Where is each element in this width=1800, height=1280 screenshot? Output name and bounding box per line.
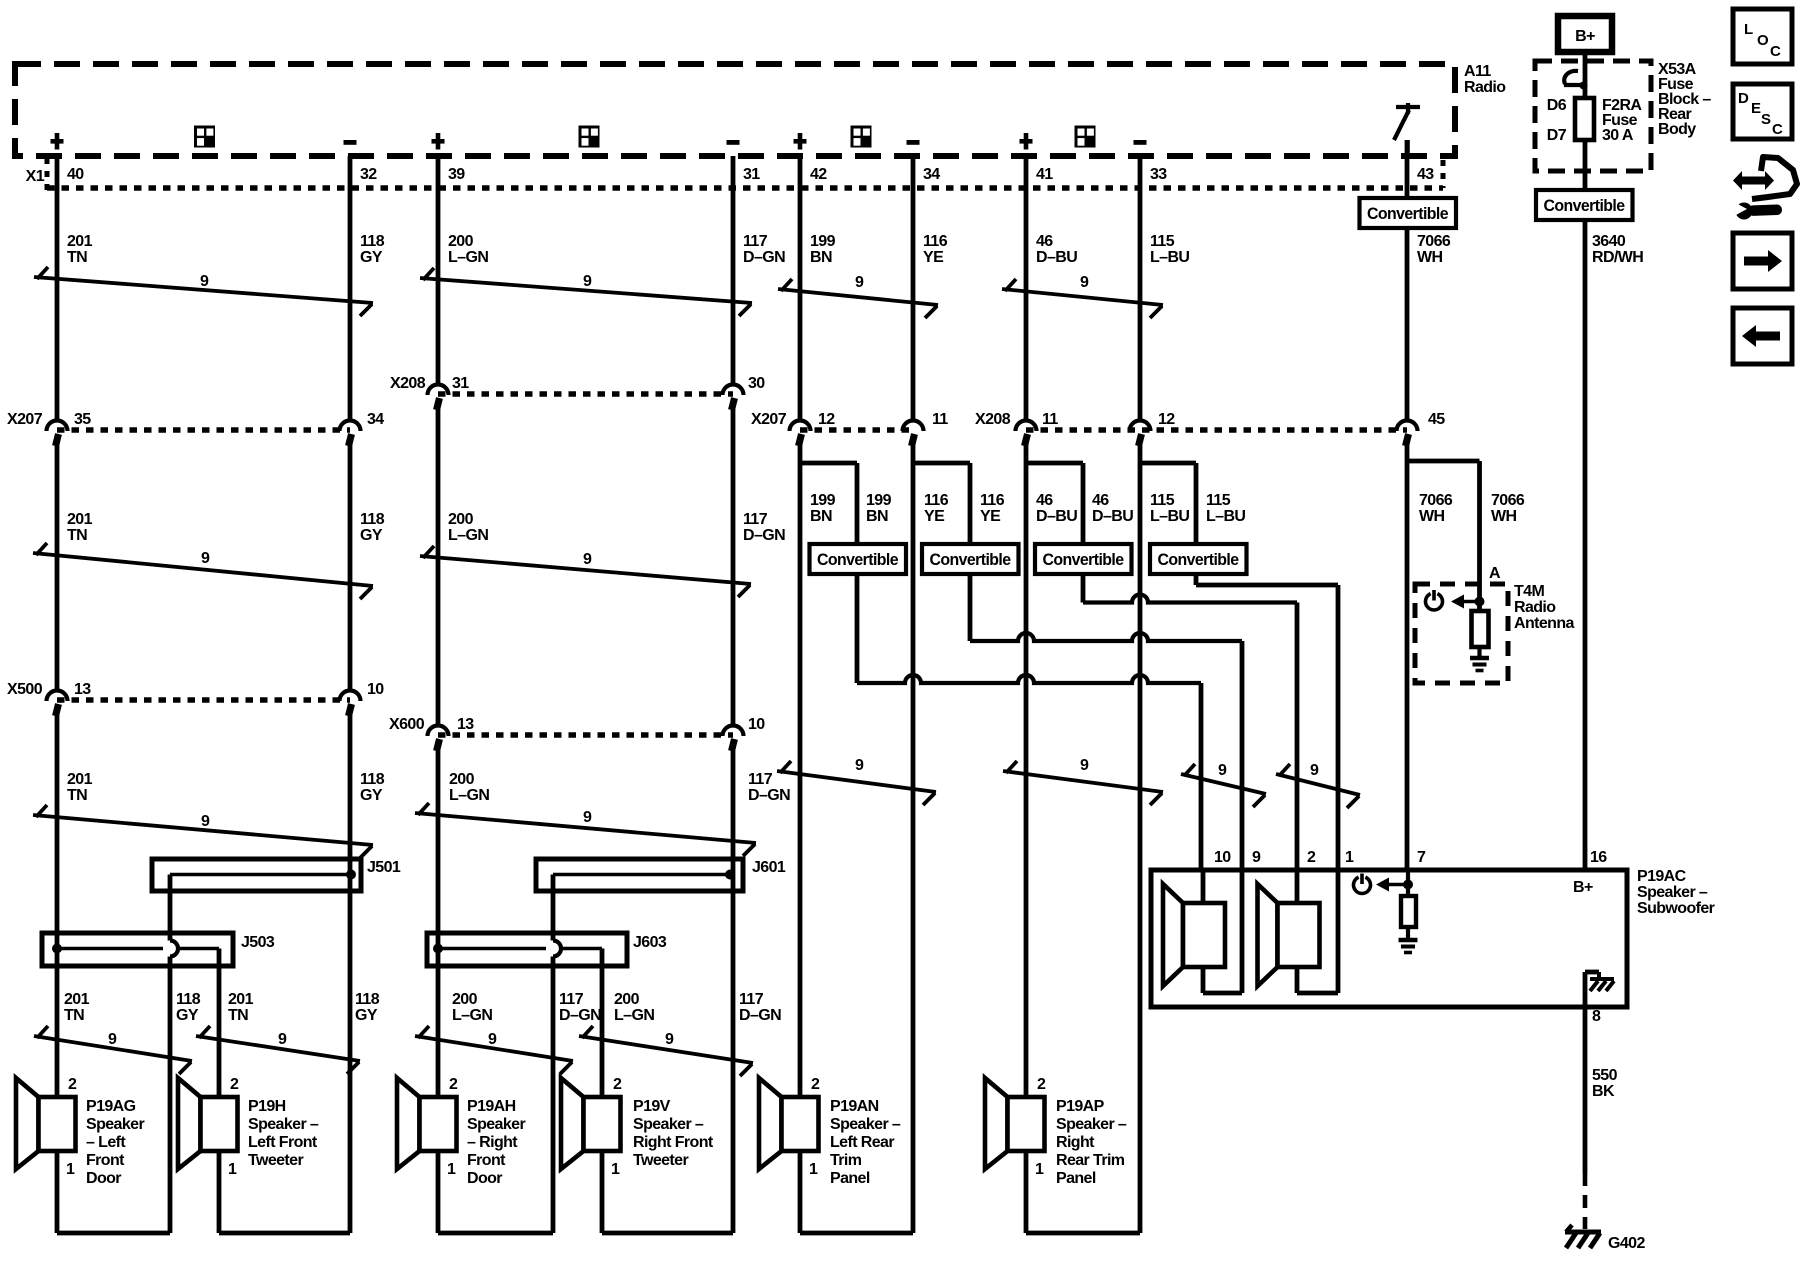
svg-text:32: 32 (360, 166, 377, 183)
svg-text:9: 9 (1252, 849, 1261, 866)
svg-text:116: 116 (980, 492, 1005, 509)
connector X207 pin 12 terminal (790, 421, 811, 432)
subwoofer earth ground (1399, 938, 1418, 943)
wire 201 TN (radio pin 40, left front speaker +) (55, 156, 60, 421)
svg-text:P19H: P19H (248, 1098, 286, 1115)
svg-text:RD/WH: RD/WH (1592, 249, 1643, 266)
branch of 115 L-BU to subwoofer pin 1 (1140, 461, 1196, 466)
svg-text:L–GN: L–GN (448, 249, 488, 266)
svg-text:201: 201 (228, 991, 254, 1008)
svg-text:BK: BK (1592, 1083, 1615, 1100)
svg-text:Front: Front (86, 1152, 125, 1169)
speaker P19AG symbol (16, 1078, 39, 1169)
wire 116 YE (radio pin 34, left rear speaker -) (911, 156, 916, 421)
svg-text:9: 9 (583, 551, 592, 568)
antenna symbol inside radio A11 (1396, 105, 1420, 109)
svg-text:X500: X500 (7, 681, 43, 698)
connector X1 left dotted edge (45, 158, 50, 190)
svg-text:9: 9 (1080, 274, 1089, 291)
connector X600 (pins 13/10) dotted line (438, 732, 733, 738)
svg-text:2: 2 (811, 1076, 820, 1093)
svg-text:BN: BN (810, 508, 832, 525)
svg-text:9: 9 (1310, 762, 1319, 779)
svg-text:39: 39 (448, 166, 465, 183)
svg-text:34: 34 (367, 411, 384, 428)
svg-text:B+: B+ (1573, 879, 1593, 896)
svg-text:X207: X207 (7, 411, 43, 428)
branch of 46 D-BU to subwoofer pin 2 (1026, 461, 1083, 466)
svg-text:TN: TN (67, 249, 87, 266)
connector X500 pin 10 terminal (340, 691, 361, 701)
antenna coil resistor (1472, 611, 1489, 647)
splice J603 box (427, 933, 627, 966)
svg-text:10: 10 (367, 681, 384, 698)
svg-text:J601: J601 (752, 859, 786, 876)
wire 200 L-GN branch from splice J603 to right tweeter + (600, 949, 605, 1098)
svg-text:GY: GY (355, 1007, 378, 1024)
subwoofer power symbol (1354, 877, 1371, 893)
svg-text:D–GN: D–GN (559, 1007, 601, 1024)
svg-text:L–BU: L–BU (1150, 249, 1189, 266)
svg-text:X208: X208 (975, 411, 1011, 428)
speaker output group 4: - symbol (1134, 140, 1147, 145)
speaker output group 2: - symbol (727, 140, 740, 145)
svg-text:9: 9 (855, 757, 864, 774)
svg-text:WH: WH (1491, 508, 1517, 525)
twisted-pair marker 9 (#16) (579, 1036, 753, 1063)
svg-text:46: 46 (1036, 492, 1053, 509)
svg-text:2: 2 (1037, 1076, 1046, 1093)
subwoofer speaker 1 symbol (1163, 884, 1183, 986)
wire 118 GY branch from splice J501 to left door speaker - (168, 875, 173, 941)
svg-text:1: 1 (1035, 1161, 1044, 1178)
svg-text:2: 2 (230, 1076, 239, 1093)
svg-text:Front: Front (467, 1152, 506, 1169)
svg-text:YE: YE (980, 508, 1001, 525)
svg-text:45: 45 (1428, 411, 1445, 428)
svg-text:E: E (1751, 100, 1761, 117)
connector X208 (pins 31/30) dotted line (438, 391, 733, 397)
connector X208 (pins 11/12/45) dotted line (1026, 427, 1407, 433)
speaker output group 2: + symbol (432, 139, 445, 144)
wire 117 D-GN branch from splice J601 to right door speaker - (551, 875, 556, 941)
connector X600 pin 13 terminal (428, 726, 449, 737)
legend back arrow box (1733, 308, 1792, 364)
svg-text:2: 2 (613, 1076, 622, 1093)
svg-text:GY: GY (360, 527, 383, 544)
svg-text:Radio: Radio (1514, 599, 1556, 616)
left door speaker bottom return wire (55, 1151, 60, 1233)
svg-text:1: 1 (447, 1161, 456, 1178)
speaker output group 3: - symbol (907, 140, 920, 145)
svg-text:P19AP: P19AP (1056, 1098, 1105, 1115)
svg-text:118: 118 (176, 991, 201, 1008)
fuse clip hook symbol (1564, 71, 1578, 84)
connector X1 right dotted edge (1441, 160, 1446, 188)
svg-text:B+: B+ (1575, 28, 1595, 45)
svg-text:Right: Right (1056, 1134, 1095, 1151)
left rear speaker bottom return wire (798, 1151, 803, 1233)
svg-text:GY: GY (176, 1007, 199, 1024)
svg-text:Speaker –: Speaker – (830, 1116, 901, 1133)
splice J601 bus and junction on 117 D-GN (553, 873, 730, 877)
wire 7066 WH (radio pin 43, antenna power) (1405, 140, 1410, 421)
antenna earth ground (1470, 656, 1489, 661)
speaker output group 2: speaker icon (579, 126, 600, 148)
svg-text:BN: BN (810, 249, 832, 266)
svg-text:201: 201 (67, 511, 93, 528)
svg-text:TN: TN (67, 787, 87, 804)
svg-text:9: 9 (201, 813, 210, 830)
svg-text:201: 201 (67, 233, 93, 250)
subwoofer internal chassis ground (1583, 972, 1588, 1007)
svg-text:T4M: T4M (1514, 583, 1544, 600)
splice J603 bus and junction on 200 L-GN (438, 947, 546, 951)
svg-text:12: 12 (1158, 411, 1175, 428)
svg-text:201: 201 (67, 771, 93, 788)
radio antenna T4M dashed outline (1415, 584, 1508, 683)
svg-text:118: 118 (360, 771, 385, 788)
speaker P19AH symbol (397, 1078, 420, 1169)
svg-text:9: 9 (583, 809, 592, 826)
svg-text:550: 550 (1592, 1067, 1618, 1084)
twisted-pair marker 9 (#8) (415, 813, 756, 843)
svg-text:GY: GY (360, 787, 383, 804)
Convertible option box on 116 YE pair (922, 544, 1019, 574)
twisted-pair marker 9 (#12) (1276, 774, 1360, 795)
speaker output group 4: speaker icon (1075, 126, 1096, 148)
svg-text:D–GN: D–GN (739, 1007, 781, 1024)
speaker output group 1: speaker icon (194, 126, 215, 148)
wire 115 L-BU (radio pin 33, right rear speaker -) (1138, 156, 1143, 421)
svg-text:A: A (1489, 565, 1501, 582)
svg-text:– Right: – Right (467, 1134, 518, 1151)
svg-text:P19AC: P19AC (1637, 868, 1687, 885)
svg-text:J501: J501 (367, 859, 401, 876)
svg-text:G402: G402 (1608, 1235, 1645, 1252)
svg-text:L–GN: L–GN (452, 1007, 492, 1024)
svg-text:12: 12 (818, 411, 835, 428)
svg-text:40: 40 (67, 166, 84, 183)
svg-text:D–BU: D–BU (1092, 508, 1133, 525)
twisted-pair marker 9 (#15) (415, 1036, 573, 1061)
antenna feed arrow and junction (1451, 595, 1464, 609)
svg-text:200: 200 (614, 991, 640, 1008)
speaker output group 3: speaker icon (851, 126, 872, 148)
svg-text:Panel: Panel (830, 1170, 870, 1187)
connector X208 pin 11 terminal (1016, 421, 1037, 432)
legend DESC box (1733, 84, 1792, 139)
svg-text:46: 46 (1036, 233, 1053, 250)
svg-text:Speaker: Speaker (86, 1116, 144, 1133)
branch of 199 BN to subwoofer pin 10 (800, 461, 857, 466)
branch of 116 YE to subwoofer pin 9 (913, 461, 970, 466)
svg-text:42: 42 (810, 166, 827, 183)
legend forward arrow box (1733, 233, 1792, 289)
svg-text:Convertible: Convertible (1043, 551, 1124, 569)
svg-text:34: 34 (923, 166, 940, 183)
wire 46 D-BU (radio pin 41, right rear speaker +) (1024, 156, 1029, 421)
speaker P19H symbol (178, 1078, 201, 1169)
wire 201 TN branch from splice J503 to left tweeter + (217, 949, 222, 1098)
svg-text:13: 13 (74, 681, 91, 698)
Convertible option box on 199 BN pair (810, 544, 907, 574)
svg-text:13: 13 (457, 716, 474, 733)
svg-text:D–GN: D–GN (743, 527, 785, 544)
splice J601 box (536, 859, 743, 891)
speaker P19V symbol (561, 1078, 584, 1169)
connector pin 45 terminal (1397, 421, 1418, 432)
Convertible option box on 3640 RD/WH (1536, 190, 1633, 220)
svg-text:31: 31 (452, 375, 469, 392)
splice J503 box (42, 933, 233, 966)
svg-text:115: 115 (1206, 492, 1231, 509)
svg-text:Convertible: Convertible (930, 551, 1011, 569)
svg-text:9: 9 (488, 1031, 497, 1048)
svg-text:D7: D7 (1547, 127, 1567, 144)
svg-text:L–GN: L–GN (449, 787, 489, 804)
svg-text:C: C (1770, 43, 1781, 60)
svg-text:200: 200 (448, 233, 474, 250)
hop of 117 D-GN branch over J603 bus (553, 941, 561, 957)
svg-text:199: 199 (810, 492, 836, 509)
svg-text:Convertible: Convertible (1544, 197, 1625, 215)
svg-text:115: 115 (1150, 233, 1175, 250)
svg-text:TN: TN (67, 527, 87, 544)
fuse block X53A dashed outline (1535, 61, 1651, 171)
legend harness icon (double arrow, loop, wrench) (1733, 171, 1774, 190)
svg-text:1: 1 (1345, 849, 1354, 866)
speaker P19AN symbol (759, 1078, 782, 1169)
svg-text:Left Front: Left Front (248, 1134, 318, 1151)
svg-text:O: O (1757, 32, 1769, 49)
svg-text:Tweeter: Tweeter (633, 1152, 688, 1169)
svg-text:10: 10 (1214, 849, 1231, 866)
Convertible option box on 46 D-BU pair (1035, 544, 1132, 574)
radio A11 dashed outline box (15, 64, 1455, 156)
splice J501 box (152, 859, 361, 891)
right rear speaker bottom return wire (1024, 1151, 1029, 1233)
connector X207 pin 11 terminal (903, 421, 924, 432)
svg-text:Body: Body (1658, 121, 1696, 138)
subwoofer P19AC box outline (1151, 870, 1627, 1007)
svg-text:117: 117 (739, 991, 764, 1008)
svg-text:9: 9 (855, 274, 864, 291)
connector X207 pin 34 terminal (340, 421, 361, 432)
svg-text:Left Rear: Left Rear (830, 1134, 894, 1151)
Convertible option box on 115 L-BU pair (1150, 544, 1247, 574)
branch of 7066 WH to radio antenna T4M (1407, 459, 1480, 464)
svg-text:Speaker –: Speaker – (248, 1116, 319, 1133)
svg-text:8: 8 (1592, 1008, 1601, 1025)
svg-text:Tweeter: Tweeter (248, 1152, 303, 1169)
svg-text:D–GN: D–GN (743, 249, 785, 266)
svg-text:201: 201 (64, 991, 90, 1008)
twisted-pair marker 9 (#13) (34, 1036, 192, 1061)
svg-text:9: 9 (278, 1031, 287, 1048)
svg-text:118: 118 (355, 991, 380, 1008)
svg-text:D–BU: D–BU (1036, 508, 1077, 525)
twisted-pair marker 9 (#14) (196, 1036, 360, 1061)
svg-text:30 A: 30 A (1602, 127, 1634, 144)
svg-text:P19V: P19V (633, 1098, 671, 1115)
wire 3640 RD/WH (fuse to subwoofer B+) (1583, 52, 1588, 190)
svg-text:16: 16 (1590, 849, 1607, 866)
svg-text:X1: X1 (26, 168, 45, 185)
subwoofer speaker 2 wires (1295, 870, 1300, 903)
svg-text:118: 118 (360, 233, 385, 250)
svg-text:Door: Door (86, 1170, 121, 1187)
svg-text:7: 7 (1417, 849, 1426, 866)
svg-text:3640: 3640 (1592, 233, 1626, 250)
svg-text:L–BU: L–BU (1206, 508, 1245, 525)
svg-text:L–BU: L–BU (1150, 508, 1189, 525)
subwoofer speaker 1 wires (1201, 870, 1206, 903)
svg-text:TN: TN (64, 1007, 84, 1024)
wire 199 BN (radio pin 42, left rear speaker +) (798, 156, 803, 421)
antenna power symbol (1425, 594, 1442, 610)
svg-text:BN: BN (866, 508, 888, 525)
right tweeter bottom return wire (602, 1231, 733, 1236)
svg-text:Right Front: Right Front (633, 1134, 714, 1151)
svg-text:9: 9 (108, 1031, 117, 1048)
svg-text:P19AN: P19AN (830, 1098, 879, 1115)
subwoofer enable arrow and junction on pin 7 (1376, 878, 1389, 892)
svg-text:9: 9 (201, 550, 210, 567)
connector X207 (pins 12/11) dotted line (800, 427, 913, 433)
connector X208 pin 30 terminal (723, 385, 744, 396)
svg-text:1: 1 (809, 1161, 818, 1178)
svg-text:7066: 7066 (1417, 233, 1451, 250)
svg-text:L: L (1744, 21, 1753, 38)
svg-text:Antenna: Antenna (1514, 615, 1575, 632)
connector X208 pin 12 terminal (1130, 421, 1151, 432)
svg-text:X208: X208 (390, 375, 426, 392)
connector X600 pin 10 terminal (723, 726, 744, 737)
wire 118 GY (radio pin 32, left front speaker -) (348, 156, 353, 421)
svg-text:WH: WH (1419, 508, 1445, 525)
svg-text:C: C (1772, 121, 1783, 138)
svg-text:117: 117 (559, 991, 584, 1008)
speaker output group 4: + symbol (1020, 139, 1033, 144)
legend LOC box (1733, 9, 1792, 64)
Convertible option box on 7066 WH (1360, 198, 1457, 228)
svg-text:TN: TN (228, 1007, 248, 1024)
svg-text:43: 43 (1417, 166, 1434, 183)
speaker output group 1: + symbol (51, 139, 64, 144)
twisted-pair marker 9 (#2) (420, 278, 752, 303)
svg-text:2: 2 (449, 1076, 458, 1093)
svg-text:46: 46 (1092, 492, 1109, 509)
svg-text:199: 199 (810, 233, 836, 250)
wire 200 L-GN (radio pin 39, right front speaker +) (436, 156, 441, 385)
wire 550 BK from subwoofer pin 8 (1583, 1007, 1588, 1173)
svg-text:1: 1 (611, 1161, 620, 1178)
right door speaker bottom return wire (436, 1151, 441, 1233)
connector X207 (pins 35/34) dotted line (57, 427, 350, 433)
svg-text:Convertible: Convertible (817, 551, 898, 569)
svg-text:X207: X207 (751, 411, 787, 428)
svg-text:9: 9 (200, 273, 209, 290)
svg-text:33: 33 (1150, 166, 1167, 183)
svg-text:Panel: Panel (1056, 1170, 1096, 1187)
svg-text:7066: 7066 (1419, 492, 1453, 509)
twisted-pair marker 9 (#5) (33, 553, 373, 586)
svg-text:1: 1 (228, 1161, 237, 1178)
ground G402 chassis symbol (1565, 1230, 1601, 1235)
twisted-pair marker 9 (#1) (34, 277, 373, 303)
svg-text:Convertible: Convertible (1158, 551, 1239, 569)
svg-text:199: 199 (866, 492, 892, 509)
splice J501 bus and junction on 118 GY (170, 873, 351, 877)
svg-text:Speaker –: Speaker – (633, 1116, 704, 1133)
svg-text:L–GN: L–GN (614, 1007, 654, 1024)
svg-text:D6: D6 (1547, 97, 1567, 114)
connector X500 (pins 13/10) dotted line (57, 697, 350, 703)
twisted-pair marker 9 (#3) (778, 289, 938, 305)
subwoofer speaker 2 symbol (1258, 884, 1278, 986)
subwoofer bias resistor (1401, 896, 1416, 927)
svg-text:200: 200 (452, 991, 478, 1008)
twisted-pair marker 9 (#10) (1003, 771, 1163, 792)
speaker output group 3: + symbol (794, 139, 807, 144)
svg-text:118: 118 (360, 511, 385, 528)
svg-text:P19AH: P19AH (467, 1098, 516, 1115)
twisted-pair marker 9 (#6) (420, 556, 751, 584)
svg-text:9: 9 (1218, 762, 1227, 779)
svg-text:Speaker: Speaker (467, 1116, 525, 1133)
left tweeter bottom return wire (219, 1231, 350, 1236)
svg-text:D: D (1738, 90, 1749, 107)
svg-text:Speaker –: Speaker – (1637, 884, 1708, 901)
B+ power feed box (1558, 16, 1612, 52)
twisted-pair marker 9 (#4) (1002, 289, 1163, 305)
svg-text:Speaker –: Speaker – (1056, 1116, 1127, 1133)
svg-text:Trim: Trim (830, 1152, 862, 1169)
connector X500 pin 13 terminal (47, 691, 68, 701)
svg-text:30: 30 (748, 375, 765, 392)
svg-text:116: 116 (924, 492, 949, 509)
svg-text:9: 9 (665, 1031, 674, 1048)
svg-text:116: 116 (923, 233, 948, 250)
svg-text:Convertible: Convertible (1367, 205, 1448, 223)
svg-text:J603: J603 (633, 934, 667, 951)
svg-text:1: 1 (66, 1161, 75, 1178)
svg-text:117: 117 (743, 233, 768, 250)
connector X207 pin 35 terminal (47, 421, 68, 432)
svg-text:41: 41 (1036, 166, 1053, 183)
svg-text:WH: WH (1417, 249, 1443, 266)
fuse F2RA 30A symbol (1575, 98, 1594, 140)
twisted-pair marker 9 (#7) (33, 815, 373, 845)
hop of 118 GY branch over J503 bus (170, 941, 178, 957)
svg-text:YE: YE (924, 508, 945, 525)
svg-text:J503: J503 (241, 934, 275, 951)
wire 117 D-GN (radio pin 31, right front speaker -) (731, 156, 736, 385)
svg-text:115: 115 (1150, 492, 1175, 509)
svg-text:A11: A11 (1464, 63, 1491, 80)
svg-text:117: 117 (743, 511, 768, 528)
connector X208 pin 31 terminal (428, 385, 449, 396)
svg-text:D–GN: D–GN (748, 787, 790, 804)
svg-text:117: 117 (748, 771, 773, 788)
speaker P19AP symbol (985, 1078, 1008, 1169)
speaker output group 1: - symbol (344, 140, 357, 145)
svg-text:7066: 7066 (1491, 492, 1525, 509)
svg-text:11: 11 (1042, 411, 1058, 428)
splice J503 bus and junction on 201 TN (57, 947, 163, 951)
svg-text:D–BU: D–BU (1036, 249, 1077, 266)
